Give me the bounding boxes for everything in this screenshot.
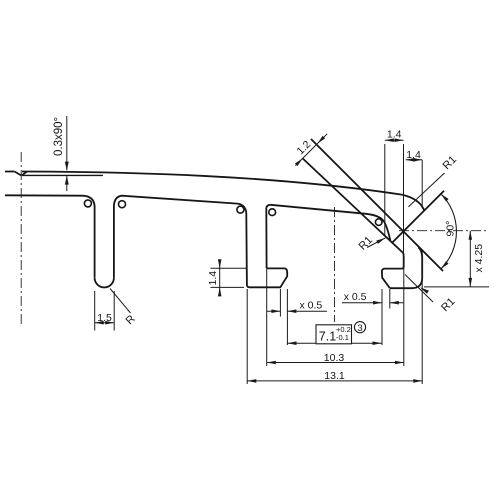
x4.25 dimension line <box>469 231 471 287</box>
centerline of channel <box>334 207 336 322</box>
right x0.5 extensions <box>381 289 383 345</box>
svg-text:13.1: 13.1 <box>324 370 345 382</box>
svg-text:R1: R1 <box>357 234 375 252</box>
1.5 extensions <box>94 291 96 331</box>
13.1 right extension <box>421 251 423 385</box>
arrowheads <box>65 136 472 383</box>
dim 13.1 line <box>247 380 422 382</box>
x4.25 arrows <box>469 231 473 240</box>
centerline of V-groove <box>20 152 22 325</box>
dim 1.4 second line <box>406 159 423 161</box>
svg-text:1.2: 1.2 <box>294 138 313 157</box>
dim 1.4 left vertical line <box>219 260 221 297</box>
right foot top edge and left chamfer <box>382 269 402 289</box>
strip underside right portion merging into arm lower side <box>271 205 391 240</box>
centerlines dash-dot <box>21 152 488 325</box>
top edge left of V-groove <box>5 171 15 173</box>
svg-text:R1: R1 <box>439 296 457 314</box>
right foot bottom edge and profile right corner <box>390 278 422 288</box>
middle wall left side <box>246 213 249 287</box>
svg-text:R1: R1 <box>441 154 459 172</box>
svg-text:1.4: 1.4 <box>207 271 219 286</box>
R1 bottom leader <box>405 275 433 303</box>
dim 1.4 first line <box>385 139 404 141</box>
svg-text:90°: 90° <box>445 221 457 237</box>
R1 mid arrowhead <box>376 236 386 244</box>
left x0.5 dimension line <box>267 310 327 312</box>
svg-text:-0.1: -0.1 <box>336 333 349 342</box>
R1 mid leader <box>367 238 386 248</box>
1.4 left arrows <box>218 259 222 268</box>
1.5 arrows <box>95 321 104 325</box>
dim 1.4 left extensions <box>211 267 248 269</box>
arm lower side S2 with fillet into right wall <box>303 158 404 268</box>
small reference circles on corners <box>84 200 382 226</box>
V-notch upper face D2 <box>392 191 444 243</box>
svg-text:x 4.25: x 4.25 <box>473 244 485 273</box>
dim 1.4 second extension <box>421 160 423 209</box>
0.3 arrows <box>65 162 69 171</box>
7.1 arrows <box>288 341 297 345</box>
right x0.5 dimension line <box>342 302 403 304</box>
1.4 second arrows <box>406 158 415 162</box>
svg-text:x 0.5: x 0.5 <box>300 299 323 311</box>
U-leg bottom semicircle <box>95 278 114 288</box>
dim 7.1 box <box>316 325 352 344</box>
svg-text:3: 3 <box>357 323 362 334</box>
dim 7.1 line <box>288 342 382 344</box>
middle wall right side <box>266 205 270 269</box>
1.4 first arrows <box>385 138 394 142</box>
dim 0.3x90 vertical line <box>66 116 68 170</box>
middle foot bottom edge and chamfer <box>250 268 288 287</box>
svg-text:R: R <box>124 313 138 327</box>
svg-text:1.4: 1.4 <box>406 149 421 161</box>
13.1 arrows <box>247 379 256 383</box>
10.3 arrows <box>267 361 276 365</box>
top edge sloping to right end <box>22 172 402 195</box>
V-groove 0.3x90 <box>15 172 27 176</box>
arm upper side / V-notch lower face (S1-D1 line) <box>311 139 443 271</box>
svg-text:10.3: 10.3 <box>324 352 345 364</box>
dim 1.2 line <box>295 134 327 166</box>
U-leg right wall and underside middle portion <box>114 196 246 278</box>
R leader <box>110 289 131 314</box>
svg-text:1.5: 1.5 <box>97 312 112 324</box>
svg-text:0.3x90°: 0.3x90° <box>53 117 65 156</box>
middle foot top edge <box>267 267 284 269</box>
right x0.5 arrows <box>373 301 382 305</box>
dim 10.3 line <box>267 362 404 364</box>
dim 13.1 left extension <box>246 289 248 384</box>
90 degree arc <box>441 194 457 269</box>
centerline of V-notch <box>399 230 488 232</box>
circled 3 <box>354 322 365 333</box>
svg-text:1.4: 1.4 <box>387 129 402 141</box>
R1 top leader <box>409 173 445 207</box>
recess line 0.3 below surface <box>22 174 103 176</box>
1.2 arrows <box>316 136 325 145</box>
beak fillet R1 top right <box>402 195 425 211</box>
left x0.5 arrows <box>271 309 280 313</box>
R1 bottom arrowhead <box>419 286 429 294</box>
dim 1.4 first extension lines <box>384 144 386 236</box>
dim 10.3 extensions <box>266 269 268 367</box>
profile right side <box>419 247 423 278</box>
1.5 dimension line <box>95 322 115 324</box>
x4.25 bottom extension <box>424 286 489 288</box>
strip underside left portion <box>5 195 95 277</box>
90 arc arrows <box>440 193 449 202</box>
left x0.5 extensions <box>279 289 281 317</box>
svg-text:7.1: 7.1 <box>319 329 336 343</box>
svg-text:x 0.5: x 0.5 <box>344 291 367 303</box>
